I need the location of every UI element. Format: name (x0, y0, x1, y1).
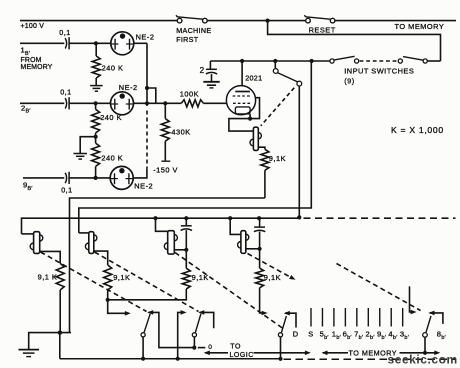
svg-text:240 K: 240 K (100, 113, 122, 122)
svg-text:240 K: 240 K (101, 153, 123, 162)
ground cap2 (203, 82, 219, 88)
svg-text:0,1: 0,1 (59, 28, 71, 37)
arrow to switch1 (125, 311, 131, 316)
wire +100V rail (20, 20, 456, 22)
switch INPUT-1 (330, 56, 359, 63)
wire SW4 feed riser (410, 286, 417, 314)
arrow to logic right (254, 351, 311, 356)
node relay-arm tap (273, 59, 277, 63)
node stage4 cap tap (257, 216, 261, 220)
wire row1 mid (69, 42, 111, 44)
wire dashed input-switch continuation (360, 60, 398, 62)
node row3 (94, 176, 98, 180)
label MACHINE FIRST (176, 26, 211, 44)
wire stage4 arrow drop (260, 288, 264, 313)
node cap2 tap (0, 0, 1, 1)
capacitor C 2 (206, 68, 217, 70)
wire cap2 corner (209, 61, 211, 69)
svg-text:NE-2: NE-2 (134, 181, 153, 190)
node stage2 out (106, 298, 110, 302)
svg-text:2: 2 (200, 66, 205, 75)
arrow to memory left (322, 350, 349, 355)
neon lamp NE-2 row1 (111, 32, 134, 55)
resistor 240K row1 (92, 43, 100, 85)
wire step jog (147, 88, 156, 103)
svg-text:TO: TO (230, 343, 241, 350)
resistor 240K row3 lower (92, 137, 100, 178)
wire stage3 out (174, 249, 186, 251)
resistor 9,1K tube-stage (261, 149, 269, 198)
svg-text:-150 V: -150 V (153, 165, 178, 174)
wire tube right loop (250, 98, 259, 119)
svg-text:K = X 1,000: K = X 1,000 (391, 125, 444, 135)
svg-text:100K: 100K (180, 89, 199, 98)
svg-text:MACHINE: MACHINE (176, 26, 211, 35)
wire ground spur (29, 333, 71, 350)
wire input-switch line (210, 60, 330, 62)
tube anode plate (235, 91, 250, 93)
switch RESET (304, 15, 335, 23)
capacitor stage3 (181, 218, 192, 250)
node stage3 out (184, 248, 188, 252)
svg-text:9,1K: 9,1K (113, 273, 130, 282)
wire row1 right (134, 42, 147, 44)
wire to-memory branch (268, 21, 441, 61)
relay element stage4 (241, 231, 246, 254)
terminal -150V bar (161, 160, 170, 162)
wire SW2 feed riser (178, 310, 187, 359)
wire stage2 out (94, 251, 108, 265)
node SW3 bus (278, 357, 282, 361)
capacitor 0,1 row1 (65, 38, 66, 48)
node stage4 bus tap (228, 216, 232, 220)
svg-text:9,1 K: 9,1 K (38, 273, 58, 282)
wire cathode drop (249, 114, 251, 119)
dashed mechanical link (261, 88, 294, 126)
wire row3 left (23, 177, 64, 179)
svg-text:0,1: 0,1 (60, 87, 71, 96)
svg-text:240 K: 240 K (102, 63, 124, 72)
node row1 (94, 41, 98, 45)
ground 240K chain (73, 153, 87, 155)
dashed diagonal stage2 (95, 252, 199, 312)
node SW4 memory line (423, 351, 427, 355)
node junction on +100V rail (266, 19, 270, 23)
node SW2 riser bus (176, 357, 180, 361)
svg-text:NE-2: NE-2 (136, 32, 155, 41)
wire contact riser (298, 86, 300, 217)
node ground spur (58, 331, 62, 335)
switch SW4 (423, 311, 443, 353)
node SW1 bus (141, 357, 145, 361)
wire stage bus vertical dashed (146, 111, 148, 169)
wire row3 mid (69, 177, 110, 179)
wire arm stub (274, 61, 276, 69)
node row2 (94, 101, 98, 105)
dashed diagonal stage1 (41, 252, 147, 312)
wire stage4 out (246, 248, 260, 250)
svg-text:seekic.com: seekic.com (388, 353, 458, 367)
bus bottom solid (60, 358, 281, 360)
label 1B' FROM MEMORY (21, 46, 53, 72)
node tube anode tap (240, 59, 244, 63)
node step upper (145, 86, 149, 90)
node stage3 bus tap (153, 216, 157, 220)
wire row2 left (20, 102, 64, 104)
svg-text:S: S (308, 330, 313, 339)
svg-text:9,1K: 9,1K (264, 273, 281, 282)
wire tube anode riser (241, 61, 243, 92)
capacitor 0,1 row3 (65, 173, 66, 183)
switch SW1 (141, 310, 194, 359)
wire stage4 feed (230, 218, 241, 234)
wire row2 mid (69, 102, 110, 104)
svg-text:FROM: FROM (21, 57, 42, 64)
arrow to memory right (400, 351, 441, 356)
svg-text:0: 0 (208, 344, 212, 351)
svg-text:430K: 430K (171, 127, 190, 136)
wire ground spur drop (59, 333, 61, 359)
resistor 9,1K stage2 (104, 265, 112, 300)
wire stage bus vertical solid (146, 43, 148, 106)
wire cap2 to ground (211, 74, 213, 82)
wire 100K to tube grid (203, 102, 227, 104)
tube 2021 envelope (226, 86, 255, 115)
wire row3 right up (133, 168, 147, 178)
wire stage1 feed (22, 233, 34, 235)
svg-text:INPUT SWITCHES: INPUT SWITCHES (344, 66, 414, 75)
resistor 240K row2 upper (92, 103, 100, 136)
switch SW3 (278, 311, 296, 359)
node 240K chain (94, 135, 98, 139)
tube grid 2 dashed (233, 102, 252, 104)
svg-text:0,1: 0,1 (61, 186, 72, 195)
wire row2 to 100K (133, 102, 181, 104)
ground row1 resistor (90, 85, 103, 87)
svg-text:9,1K: 9,1K (269, 154, 286, 163)
wire chain ground stub (80, 137, 95, 154)
wire stage1 out (40, 251, 61, 263)
node stage4 out (258, 247, 262, 251)
neon lamp NE-2 row3 (110, 166, 133, 189)
switch arm blade (277, 73, 297, 82)
node 430K tap (163, 101, 167, 105)
arrow to logic left (204, 350, 228, 355)
tube cathode box (235, 107, 250, 114)
resistor 9,1K stage3 (182, 250, 190, 289)
bus line 2 (79, 61, 311, 233)
wire input line right end (427, 60, 440, 62)
resistor 9,1K stage1 (56, 263, 64, 332)
svg-text:FIRST: FIRST (176, 35, 199, 44)
capacitor stage4 (254, 218, 265, 249)
dashed diagonal stage3 (175, 253, 285, 330)
svg-text:(9): (9) (344, 76, 355, 85)
bus line 3 (22, 218, 300, 234)
ground main (19, 350, 40, 357)
arrow to switch3 (262, 311, 268, 316)
terminal 0 stub (198, 344, 213, 351)
contact circle lower (297, 81, 302, 86)
node cathode junction (248, 117, 252, 121)
switch SW2 (192, 310, 213, 348)
bus bottom dashed (284, 358, 457, 360)
tube grid 1 dashed (233, 95, 252, 97)
node right riser tap (310, 59, 314, 63)
relay element stage2 (89, 232, 94, 254)
neon lamp NE-2 row2 (111, 92, 134, 115)
relay element tube-stage (253, 127, 258, 150)
node stage3 cap tap (184, 216, 188, 220)
relay element stage1 (34, 232, 40, 254)
wire stage2 arrow drop (108, 300, 128, 314)
svg-text:TO MEMORY: TO MEMORY (395, 22, 445, 31)
terminal ticks D-S-digits (311, 308, 403, 327)
dashed diagonal last stage (337, 264, 421, 311)
capacitor 0,1 row2 (65, 98, 66, 108)
switch INPUT-9 (398, 57, 427, 64)
wire relay out (258, 147, 265, 149)
node stage1 ground join (58, 331, 62, 335)
node SW1 link (192, 346, 196, 350)
svg-text:+100 V: +100 V (21, 23, 45, 30)
wire stage2 feed (79, 232, 89, 234)
svg-text:D: D (293, 330, 299, 339)
relay element stage3 (168, 231, 175, 254)
resistor 9,1K stage4 (256, 249, 264, 288)
dashed diagonal stage4 (248, 254, 297, 282)
wire stage3 feed (156, 218, 168, 231)
bus line 3 dashed (304, 217, 456, 219)
svg-text:RESET: RESET (309, 25, 336, 34)
label INPUT SWITCHES (9) (344, 66, 414, 85)
bus line 1 (70, 198, 265, 333)
svg-text:2021: 2021 (245, 74, 262, 83)
resistor 430K (161, 103, 169, 160)
switch MACHINE FIRST (176, 15, 207, 23)
svg-text:NE-2: NE-2 (119, 83, 138, 92)
contact circle upper (273, 69, 278, 74)
wire row1 left (20, 42, 64, 44)
svg-text:MEMORY: MEMORY (21, 64, 53, 71)
node step lower (145, 101, 149, 105)
wire stage2-stage3 link (108, 289, 187, 300)
wire cathode to relay coil (229, 119, 253, 132)
node contact riser foot (297, 215, 301, 219)
resistor 100K (181, 100, 203, 107)
label TO LOGIC (230, 343, 254, 359)
